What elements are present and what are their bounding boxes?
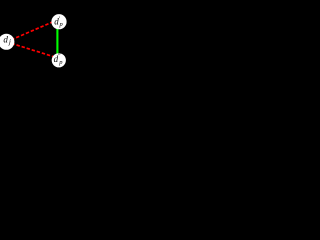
label d_j [3,34,10,46]
node d'_p [51,14,66,29]
wire: green edge d'_p to d''_p [56,22,58,60]
label d''_p [54,54,64,66]
node d_j [0,34,14,50]
node d''_p [52,53,66,67]
wire: red dashed edge d_j to d'_p [6,19,59,42]
svg-text:p: p [58,59,63,66]
wire: red dashed edge d_j to d''_p [6,42,58,59]
svg-text:j: j [8,38,11,46]
svg-text:d: d [3,34,8,44]
label d'_p [54,16,63,27]
